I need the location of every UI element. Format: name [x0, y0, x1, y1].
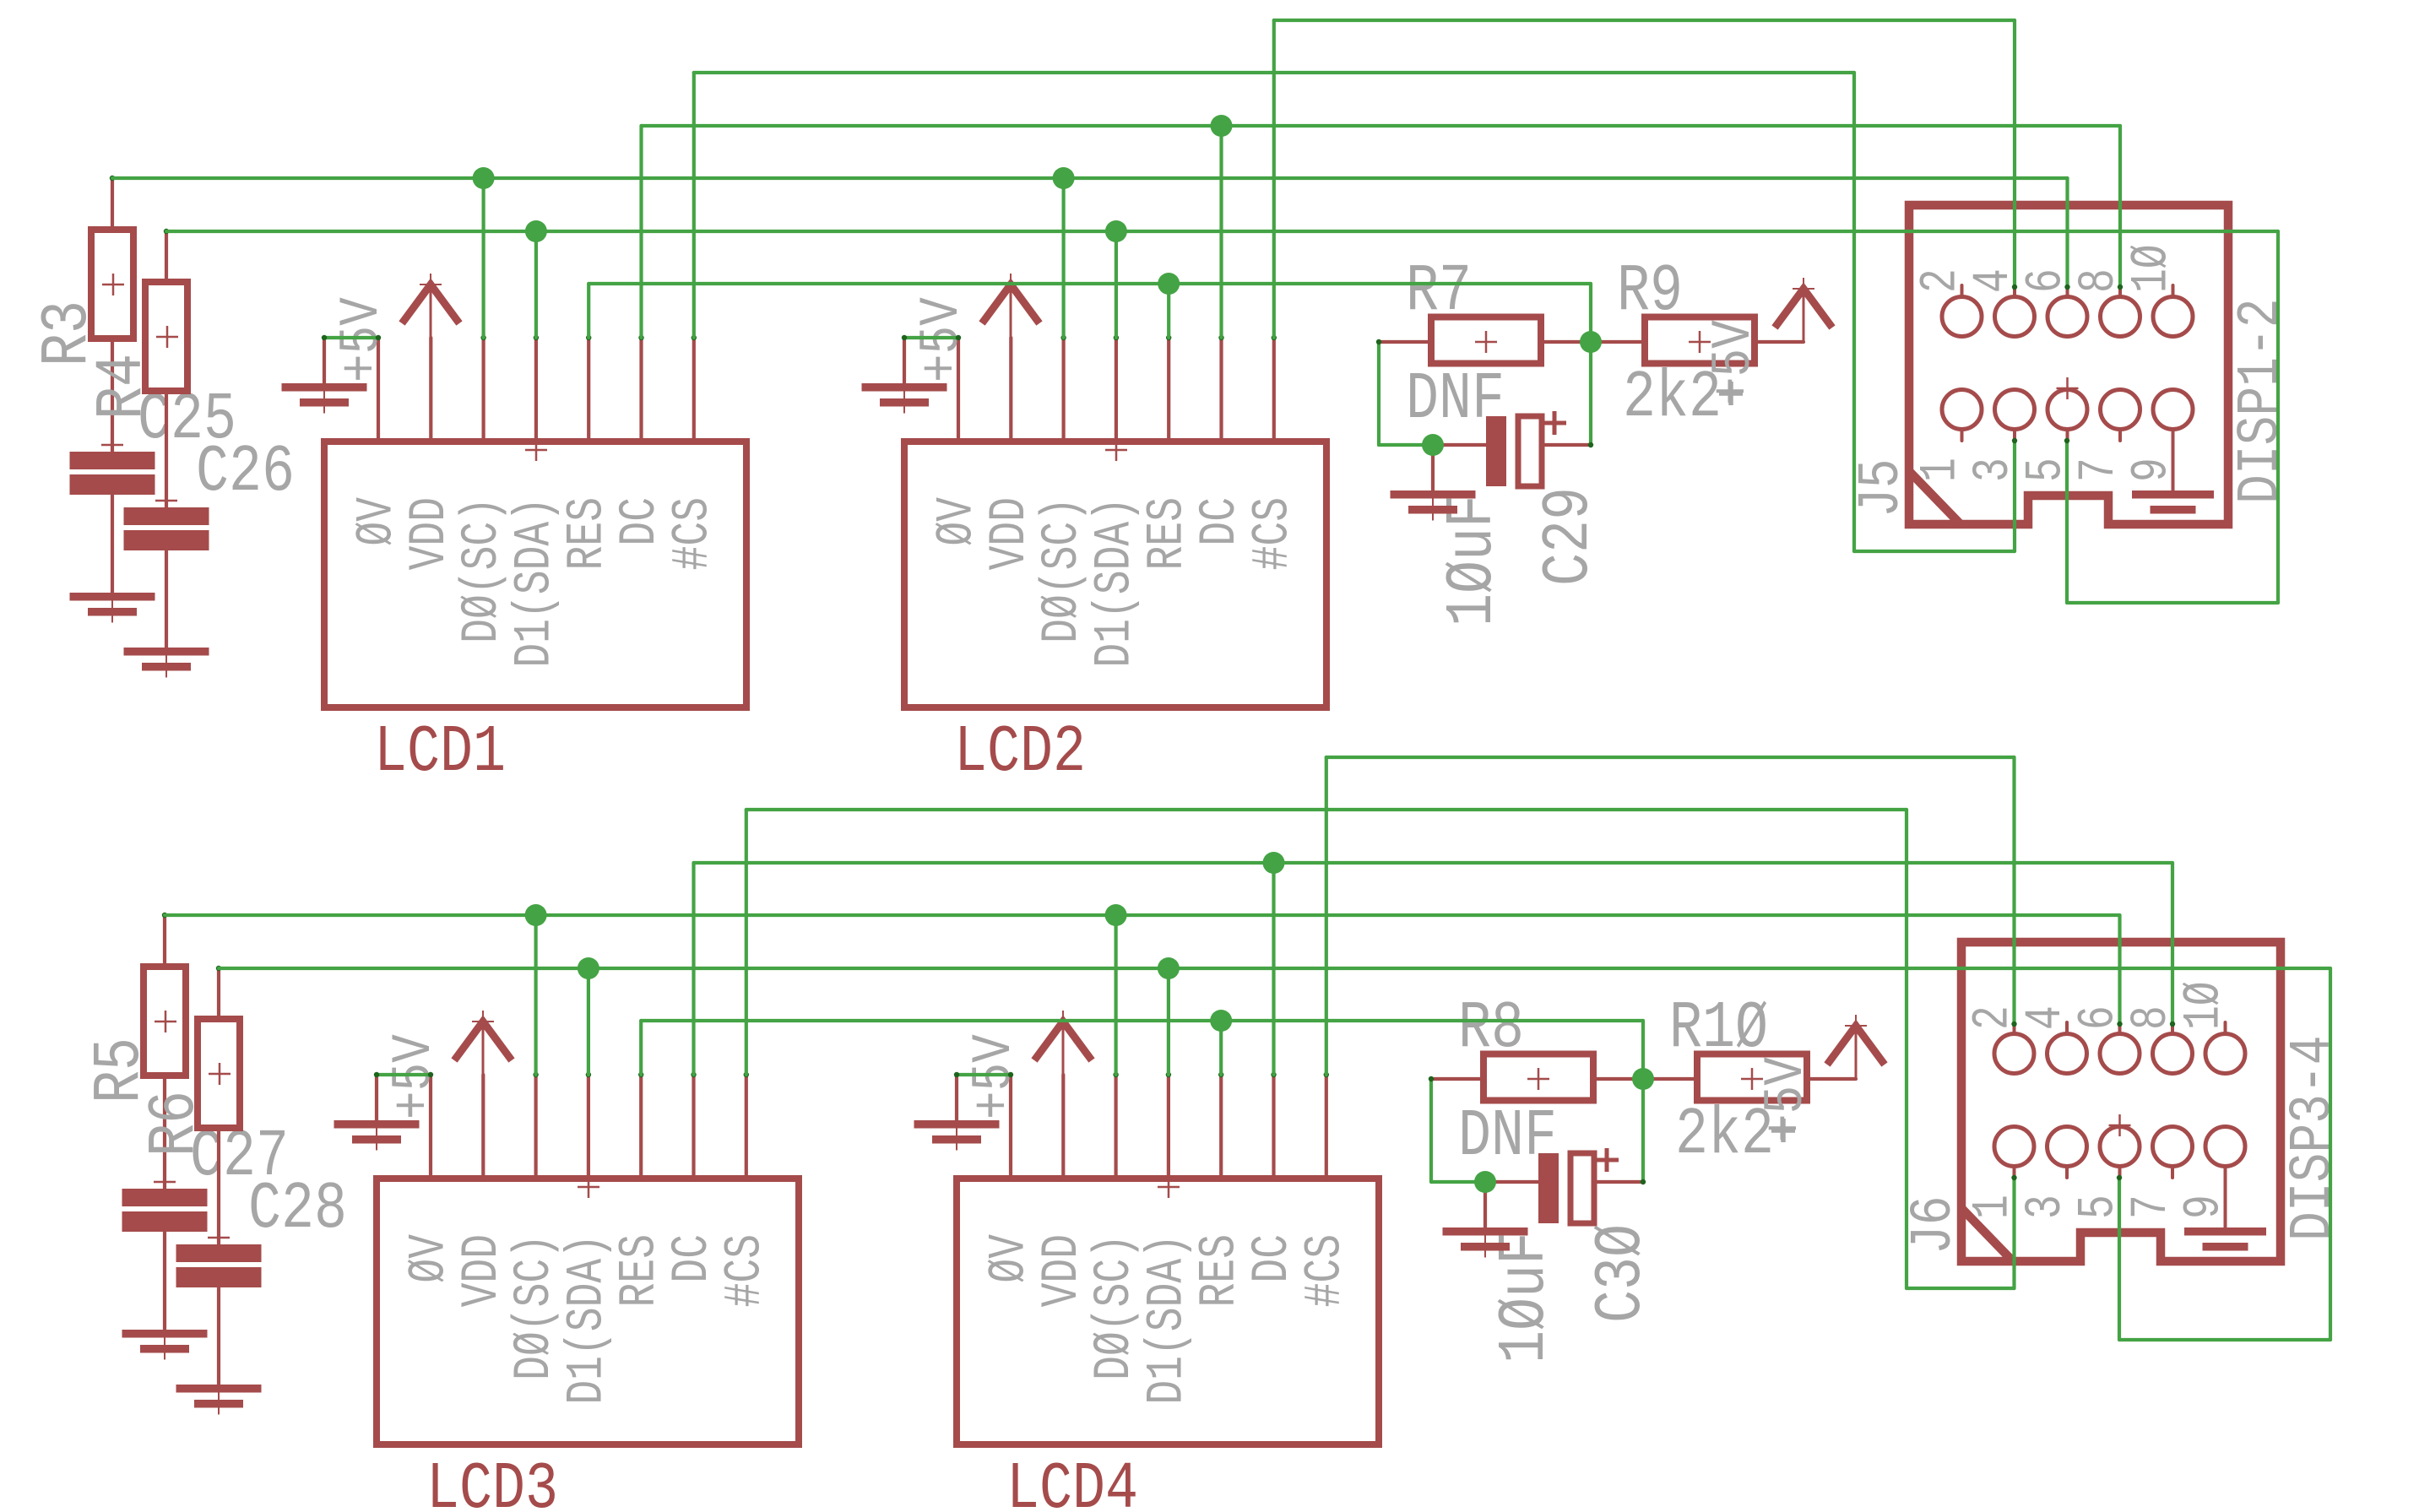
wire R4 to C26 — [165, 392, 168, 507]
resistor R8 — [1483, 1054, 1593, 1101]
svg-text:VDD: VDD — [453, 1234, 512, 1307]
pin 0V of LCD1 — [377, 338, 380, 442]
svg-text:R9: R9 — [1617, 253, 1683, 329]
svg-text:VDD: VDD — [981, 497, 1039, 570]
capacitor C29 — [1486, 416, 1506, 486]
pin 1 of J5 — [1942, 390, 1982, 430]
svg-text:J6: J6 — [1902, 1195, 1968, 1255]
wire R5 to C27 — [163, 1076, 166, 1189]
svg-text:+5V: +5V — [963, 1034, 1026, 1119]
+5V supply at R9 — [1775, 289, 1832, 328]
svg-text:DØ(SC): DØ(SC) — [1086, 1234, 1144, 1380]
pin 0V of LCD2 — [957, 338, 960, 442]
wire C27 to ground — [163, 1232, 166, 1330]
pin 3 of J5 — [1995, 390, 2035, 430]
pin 0V of LCD4 — [1009, 1075, 1012, 1179]
svg-text:ØV: ØV — [929, 497, 987, 546]
svg-text:DISP1-2: DISP1-2 — [2229, 298, 2295, 504]
ground at 0V of LCD1 — [324, 336, 378, 339]
wire net CS_LCD4 (top rail) — [1326, 756, 2015, 759]
pin 6 of J5 — [2048, 297, 2087, 337]
pin RES of LCD4 — [1219, 1075, 1223, 1179]
wire R9 right to +5V — [1753, 340, 1804, 344]
pin 2 of J5 — [1942, 297, 1982, 337]
svg-text:J5: J5 — [1850, 458, 1916, 518]
pin 3 of J6 — [2048, 1127, 2087, 1167]
svg-text:7: 7 — [2123, 1195, 2181, 1219]
wire C28 to ground — [217, 1287, 220, 1385]
pin DC of LCD4 — [1272, 1075, 1275, 1179]
pin 4 of J5 — [1995, 297, 2035, 337]
LCD module LCD4 — [957, 1179, 1379, 1444]
wire junction to C30 — [1641, 1179, 1646, 1184]
LCD module LCD4 — [1113, 1072, 1118, 1077]
wire R6 to SDA net — [217, 968, 220, 1019]
pin 0V of LCD3 — [429, 1075, 432, 1179]
resistor R5 — [144, 967, 186, 1076]
capacitor C26 — [124, 507, 209, 525]
LCD module LCD2 — [904, 442, 1326, 707]
svg-text:C26: C26 — [196, 434, 295, 510]
+5V supply at VDD of LCD3 — [454, 1022, 512, 1060]
wire C29 to ground — [1431, 445, 1435, 490]
svg-text:LCD3: LCD3 — [426, 1451, 558, 1512]
pin D0(SC) of LCD2 — [1061, 338, 1065, 442]
LCD module LCD3 — [533, 1072, 538, 1077]
ground under C29 — [1391, 490, 1476, 499]
pin #CS of LCD2 — [1272, 338, 1276, 442]
pin VDD of LCD2 — [1009, 338, 1012, 442]
wire net SDA — [219, 967, 2330, 970]
svg-text:ØV: ØV — [981, 1234, 1039, 1283]
pin RES of LCD2 — [1167, 338, 1170, 442]
ground at 0V of LCD4 — [955, 1075, 958, 1120]
svg-text:LCD4: LCD4 — [1006, 1451, 1138, 1512]
pin #CS of LCD1 — [692, 338, 696, 442]
pin RES of LCD1 — [587, 338, 590, 442]
+5V supply at VDD of LCD4 — [1034, 1022, 1092, 1060]
pin D0(SC) of LCD3 — [534, 1075, 537, 1179]
ground bars LCD3 — [334, 1120, 420, 1129]
pin 1 of J6 — [1994, 1127, 2034, 1167]
ground at 0V of LCD3 — [377, 1073, 431, 1076]
svg-text:RES: RES — [559, 497, 617, 570]
wire R3 to SCL net — [110, 176, 115, 181]
svg-text:7: 7 — [2070, 458, 2129, 482]
wire R8 right to junction — [1593, 1077, 1697, 1081]
svg-text:+5V: +5V — [1755, 1057, 1818, 1142]
pin RES of LCD3 — [639, 1075, 643, 1179]
svg-text:R7: R7 — [1406, 253, 1472, 329]
svg-text:1Ø: 1Ø — [2176, 981, 2234, 1030]
resistor R10 — [1697, 1054, 1807, 1101]
wire R7 right to junction — [1541, 340, 1645, 344]
wire junction to C29 — [1588, 442, 1593, 447]
wire net CS_LCD3 — [746, 808, 1907, 811]
wire net DC — [694, 861, 2173, 864]
pin DC of LCD2 — [1219, 338, 1223, 442]
svg-text:ØV: ØV — [349, 497, 407, 546]
svg-text:DØ(SC): DØ(SC) — [453, 497, 512, 643]
pin D0(SC) of LCD4 — [1114, 1075, 1117, 1179]
svg-text:C3Ø: C3Ø — [1583, 1224, 1659, 1323]
pin 8 of J5 — [2101, 297, 2140, 337]
wire R7 left to ground loop — [1379, 340, 1431, 344]
chamfer — [1961, 1208, 2013, 1261]
svg-text:D1(SDA): D1(SDA) — [1138, 1234, 1196, 1405]
wire net DC — [642, 124, 2121, 127]
svg-text:D1(SDA): D1(SDA) — [506, 497, 564, 668]
pin D0(SC) of LCD1 — [481, 338, 485, 442]
capacitor C25 — [70, 452, 155, 469]
svg-text:R1Ø: R1Ø — [1669, 990, 1768, 1066]
resistor R7 — [1431, 317, 1541, 364]
resistor R9 — [1645, 317, 1755, 364]
pin #CS of LCD4 — [1325, 1075, 1328, 1179]
svg-text:2: 2 — [1912, 268, 1971, 293]
svg-text:1: 1 — [1912, 458, 1971, 482]
connector J5 — [1909, 205, 2228, 524]
pin VDD of LCD4 — [1061, 1075, 1065, 1179]
wire R6 to SDA net — [216, 966, 221, 971]
ground under C25 — [70, 593, 155, 601]
LCD module LCD3 — [377, 1179, 799, 1444]
wire R8 left to ground loop — [1429, 1079, 1433, 1182]
ground bars LCD1 — [282, 383, 367, 392]
ground at 0V of LCD2 — [904, 336, 958, 339]
wire net CS_LCD1 — [694, 71, 1854, 74]
pin 10 of J6 — [2205, 1034, 2245, 1074]
svg-text:R8: R8 — [1458, 990, 1524, 1066]
ground under C30 — [1443, 1227, 1528, 1236]
wire C26 to ground — [165, 550, 168, 648]
resistor R3 — [91, 230, 133, 339]
pin 7 of J5 — [2101, 390, 2140, 430]
wire R3 to C25 — [111, 339, 114, 452]
pin DC of LCD3 — [692, 1075, 695, 1179]
svg-text:1ØuF: 1ØuF — [1487, 1232, 1563, 1363]
wire R4 to SDA net — [165, 231, 168, 282]
svg-text:#CS: #CS — [716, 1234, 774, 1307]
svg-text:DØ(SC): DØ(SC) — [506, 1234, 564, 1380]
svg-text:1ØuF: 1ØuF — [1435, 495, 1511, 626]
+5V supply at VDD of LCD2 — [982, 285, 1039, 323]
svg-text:#CS: #CS — [1244, 497, 1302, 570]
chamfer — [1909, 471, 1961, 524]
svg-text:DC: DC — [664, 1234, 722, 1283]
svg-text:RES: RES — [1191, 1234, 1250, 1307]
ground at 0V of LCD2 — [903, 338, 906, 383]
pin D1(SDA) of LCD4 — [1167, 1075, 1170, 1179]
plus marker — [1719, 382, 1743, 405]
wire net RES — [641, 1019, 1643, 1022]
capacitor C27 — [122, 1189, 208, 1206]
svg-text:DC: DC — [611, 497, 670, 546]
ground of J6 pin9 — [2184, 1227, 2266, 1236]
svg-text:R4: R4 — [84, 354, 160, 420]
wire net RES — [589, 282, 1591, 285]
pin 8 of J6 — [2153, 1034, 2193, 1074]
svg-text:DC: DC — [1244, 1234, 1302, 1283]
wire R3 to SCL net — [111, 178, 114, 230]
svg-text:LCD2: LCD2 — [954, 714, 1086, 790]
svg-text:C28: C28 — [248, 1171, 347, 1247]
plus marker — [1771, 1119, 1795, 1142]
ground at 0V of LCD4 — [957, 1073, 1011, 1076]
pin 7 of J6 — [2153, 1127, 2193, 1167]
pin 5 of J5 — [2048, 390, 2087, 430]
svg-text:+5V: +5V — [383, 1034, 446, 1119]
wire R7 left to ground loop — [1377, 342, 1380, 445]
ground under C27 — [122, 1330, 208, 1338]
svg-text:+5V: +5V — [331, 297, 393, 382]
svg-text:DØ(SC): DØ(SC) — [1033, 497, 1092, 643]
wire net SDA — [166, 230, 2278, 233]
connector J6 — [1961, 942, 2281, 1261]
LCD module LCD2 — [1060, 335, 1066, 340]
svg-text:RES: RES — [611, 1234, 670, 1307]
svg-text:ØV: ØV — [401, 1234, 459, 1283]
svg-text:+5V: +5V — [1703, 320, 1766, 405]
resistor R4 — [145, 282, 187, 391]
svg-text:VDD: VDD — [1033, 1234, 1092, 1307]
+5V supply at VDD of LCD1 — [402, 285, 459, 323]
ground at 0V of LCD1 — [323, 338, 326, 383]
pin 6 of J6 — [2100, 1034, 2140, 1074]
svg-text:#CS: #CS — [664, 497, 722, 570]
pin D1(SDA) of LCD3 — [587, 1075, 590, 1179]
+5V supply at R10 — [1827, 1026, 1885, 1065]
svg-text:R6: R6 — [137, 1091, 213, 1157]
capacitor C30 — [1538, 1153, 1559, 1223]
wire R10 right to +5V — [1805, 1077, 1856, 1081]
wire R8 left to ground loop — [1431, 1077, 1483, 1081]
svg-text:1Ø: 1Ø — [2124, 244, 2182, 293]
wire R6 to C28 — [217, 1129, 220, 1244]
wire junction to C29 — [1433, 443, 1486, 447]
pin DC of LCD1 — [639, 338, 643, 442]
pin 5 of J6 — [2100, 1127, 2140, 1167]
wire junction to C30 — [1485, 1180, 1538, 1184]
ground under C28 — [176, 1385, 262, 1393]
LCD module LCD1 — [480, 335, 485, 340]
wire net CS_LCD2 (top rail) — [1274, 19, 2015, 22]
wire C30 to ground — [1483, 1182, 1487, 1227]
pin #CS of LCD3 — [745, 1075, 748, 1179]
pin VDD of LCD3 — [481, 1075, 485, 1179]
wire net SCL — [165, 913, 2120, 917]
svg-text:9: 9 — [2124, 458, 2182, 482]
ground bars LCD2 — [862, 383, 947, 392]
ground bars LCD4 — [914, 1120, 1000, 1129]
pin 2 of J6 — [1994, 1034, 2034, 1074]
svg-text:LCD1: LCD1 — [374, 714, 506, 790]
resistor R6 — [198, 1019, 240, 1128]
svg-text:RES: RES — [1139, 497, 1197, 570]
pin D1(SDA) of LCD1 — [534, 338, 538, 442]
pin VDD of LCD1 — [429, 338, 432, 442]
pin 9 of J5 — [2153, 390, 2193, 430]
wire R5 to SCL net — [162, 913, 167, 918]
ground of J5 pin9 — [2132, 490, 2214, 499]
svg-text:3: 3 — [2017, 1195, 2075, 1219]
svg-text:D1(SDA): D1(SDA) — [1086, 497, 1144, 668]
svg-text:#CS: #CS — [1296, 1234, 1354, 1307]
wire R4 to SDA net — [164, 229, 169, 234]
wire R5 to SCL net — [163, 915, 166, 967]
pin 10 of J5 — [2153, 297, 2193, 337]
pin 9 of J6 — [2205, 1127, 2245, 1167]
svg-text:VDD: VDD — [401, 497, 459, 570]
svg-text:D1(SDA): D1(SDA) — [558, 1234, 616, 1405]
svg-text:C29: C29 — [1531, 487, 1607, 586]
svg-text:+5V: +5V — [911, 297, 974, 382]
pin 4 of J6 — [2048, 1034, 2087, 1074]
pin D1(SDA) of LCD2 — [1115, 338, 1118, 442]
svg-text:9: 9 — [2176, 1195, 2234, 1219]
svg-text:4: 4 — [2017, 1005, 2075, 1030]
ground at 0V of LCD3 — [375, 1075, 378, 1120]
wire net SCL — [112, 176, 2068, 180]
wire C25 to ground — [111, 495, 114, 593]
capacitor C28 — [176, 1244, 262, 1262]
ground under C26 — [124, 648, 209, 656]
LCD module LCD1 — [324, 442, 746, 707]
svg-text:DISP3-4: DISP3-4 — [2281, 1035, 2347, 1241]
svg-text:DC: DC — [1191, 497, 1250, 546]
